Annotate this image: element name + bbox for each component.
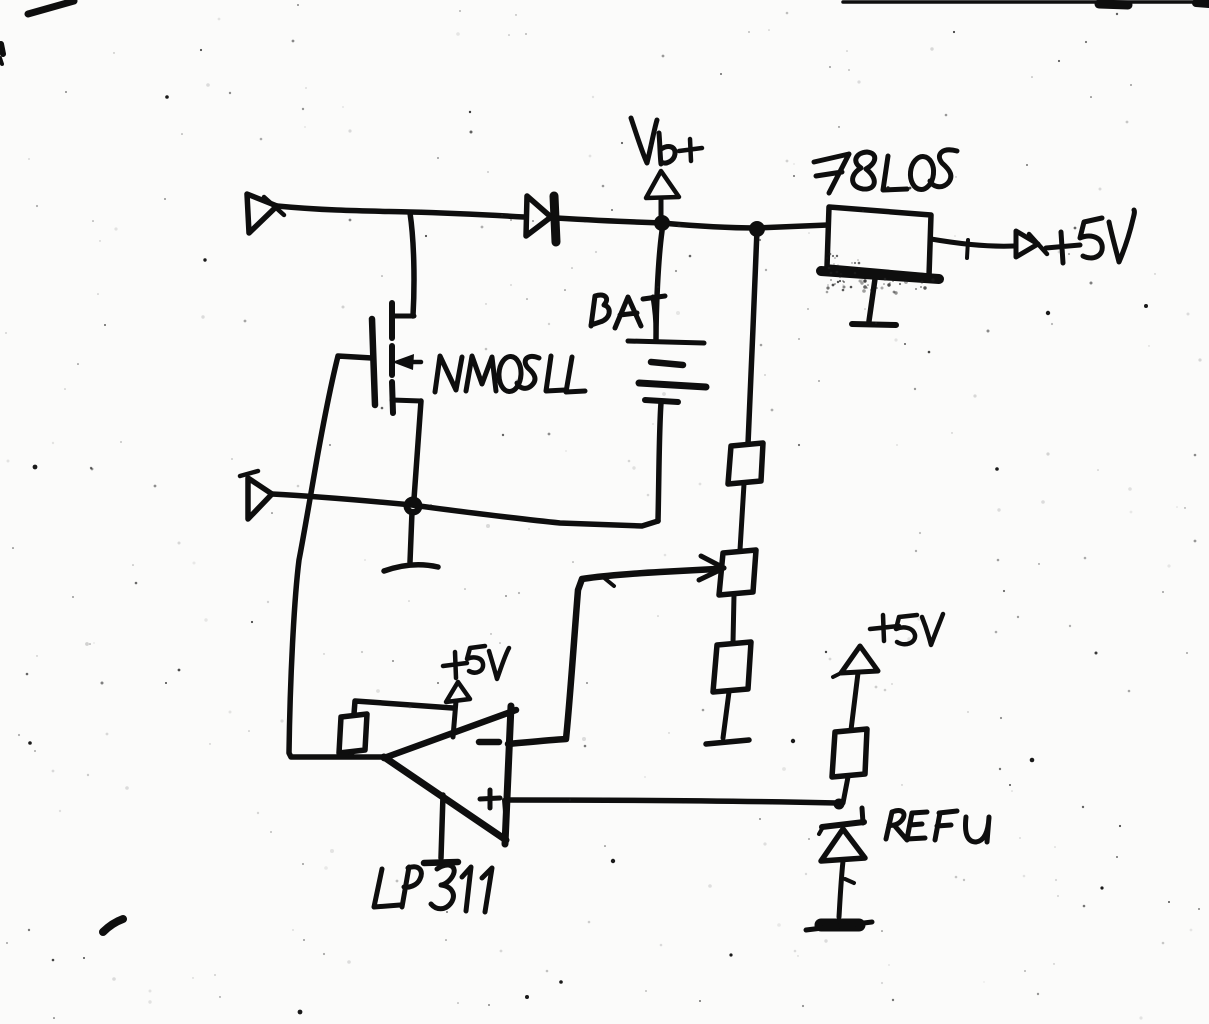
ground pin of U1 — [424, 795, 458, 863]
trimmer resistor R2 — [719, 550, 756, 595]
wire non-inverting input to node REF — [509, 800, 837, 803]
output terminal +5V — [1016, 231, 1047, 257]
label +5V above R5 — [870, 614, 943, 645]
wire node A to ground — [410, 512, 412, 562]
input terminal J1 (top-left) — [247, 194, 284, 233]
label BAT on BT1 — [591, 295, 665, 331]
junction node Vb+ — [654, 215, 670, 231]
wire node Vb+ to node B — [662, 223, 757, 228]
wire R4 bottom to output net — [351, 753, 352, 757]
resistor R3 — [713, 642, 751, 692]
plus sign pin 2 — [480, 790, 505, 812]
wire gate of Q1 down to comparator output — [289, 356, 385, 757]
ground under node A — [384, 565, 438, 571]
power flag +5V at U1 — [446, 682, 470, 737]
trimmer arrow head — [603, 556, 724, 586]
label REF U on D2 — [886, 811, 989, 842]
smudge bottom-left — [103, 919, 123, 932]
ground under U2 — [852, 279, 896, 325]
wire zener anode to ground — [839, 861, 854, 917]
wire U2 output — [931, 239, 1014, 246]
scanner mark top edge — [843, 0, 1209, 4]
wire node B down to resistor R1 — [748, 230, 757, 444]
regulator U2 78L05 box — [821, 207, 939, 279]
wire R1 to R2 — [740, 484, 744, 550]
wire R3 to ground — [723, 692, 729, 738]
label 78L05 on U2 — [814, 150, 957, 193]
battery BT1 — [628, 341, 706, 402]
diode D1 — [526, 196, 556, 242]
input terminal J2 (left) — [240, 471, 272, 519]
minus sign pin 3 — [479, 739, 499, 746]
junction node A — [404, 497, 423, 516]
wire inverting input to trimmer arrow — [508, 569, 716, 744]
power flag Vb+ — [646, 171, 679, 222]
power flag +5V above R5 — [833, 646, 878, 730]
resistor R5 — [832, 729, 867, 777]
transistor Q1 NMOS — [372, 303, 421, 413]
wire source of Q1 to node A — [414, 401, 421, 499]
ground under D2 — [806, 922, 872, 930]
resistor R1 — [728, 443, 763, 484]
label LP 311 on U1 — [374, 865, 492, 912]
wire node Vb+ down to battery plus — [656, 231, 662, 340]
junction node REF — [834, 799, 845, 810]
wire R4 top to +5V rail — [354, 701, 453, 714]
label NMOS LL on Q1 — [435, 356, 585, 392]
zener diode D2 REF U — [819, 808, 865, 861]
label Vb+ — [631, 118, 702, 164]
wire drain of Q1 — [410, 213, 414, 316]
scanner marks left edge — [1, 44, 3, 54]
scanner mark top-left diagonal — [28, 1, 74, 14]
wire J2 to node A to battery minus — [272, 494, 658, 526]
wire top rail J1 to diode — [277, 206, 524, 217]
wire node B to regulator U2 — [757, 225, 828, 228]
pull-up resistor R4 — [339, 714, 367, 753]
label +5V at output — [1046, 210, 1134, 263]
ground under R3 — [706, 740, 749, 744]
wire R5 to node REF — [843, 777, 848, 803]
wire R2 to R3 — [733, 595, 734, 643]
label +5V at U1 — [443, 646, 509, 679]
junction node B — [749, 221, 765, 237]
wire battery minus stem — [658, 403, 661, 521]
wire diode to node Vb+ — [556, 218, 662, 223]
comparator U1 LP311 triangle — [384, 710, 516, 758]
